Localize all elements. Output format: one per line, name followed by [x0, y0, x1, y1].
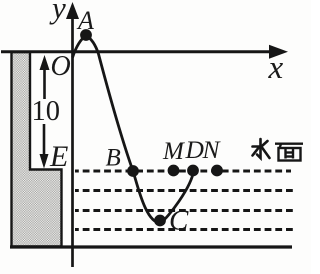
svg-text:N: N: [202, 135, 222, 164]
gray platform wall (L-shape): [12, 52, 62, 247]
水 (water) character: [253, 139, 270, 158]
y-axis arrowhead: [66, 2, 79, 19]
面 (surface) character: [275, 144, 303, 161]
point B: [127, 165, 139, 177]
svg-text:M: M: [162, 138, 185, 165]
svg-text:10: 10: [32, 96, 61, 127]
point M: [168, 165, 180, 177]
point C: [154, 215, 166, 227]
depth measure: down arrow: [43, 124, 46, 156]
svg-text:C: C: [169, 205, 189, 237]
pool bottom line: [10, 245, 292, 248]
svg-text:x: x: [268, 50, 284, 86]
water surface dashed line: [75, 170, 291, 173]
svg-text:B: B: [106, 145, 121, 172]
x-axis: [1, 50, 272, 53]
svg-text:O: O: [51, 51, 71, 82]
point D: [187, 165, 199, 177]
dashed water line 3: [75, 209, 294, 212]
point A: [80, 29, 92, 41]
trajectory curve A-B-C-D: [73, 36, 194, 224]
dashed water line 4: [75, 228, 294, 231]
svg-text:E: E: [49, 140, 68, 173]
svg-text:A: A: [76, 6, 94, 35]
point N: [211, 165, 223, 177]
y-axis: [71, 12, 74, 267]
dashed water line 2: [75, 189, 294, 192]
svg-text:D: D: [185, 135, 205, 164]
depth measure: up arrow: [43, 66, 46, 99]
x-axis arrowhead: [269, 45, 288, 59]
svg-text:y: y: [49, 0, 66, 25]
